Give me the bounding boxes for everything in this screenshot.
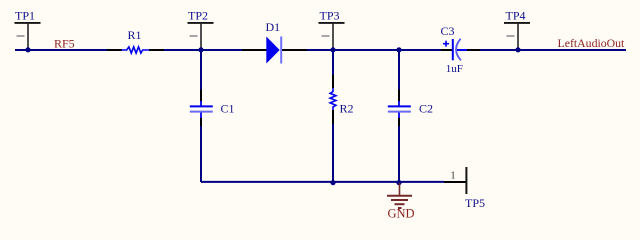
- svg-text:LeftAudioOut: LeftAudioOut: [558, 36, 626, 50]
- svg-text:D1: D1: [266, 20, 281, 34]
- svg-text:R1: R1: [128, 28, 142, 42]
- svg-text:1uF: 1uF: [446, 63, 463, 75]
- svg-text:TP5: TP5: [465, 196, 485, 210]
- svg-text:C1: C1: [221, 102, 235, 116]
- svg-text:R2: R2: [340, 102, 354, 116]
- svg-text:TP1: TP1: [15, 8, 35, 22]
- svg-text:GND: GND: [388, 207, 415, 221]
- svg-text:TP3: TP3: [320, 8, 340, 22]
- svg-text:C3: C3: [441, 24, 455, 38]
- svg-text:C2: C2: [419, 102, 433, 116]
- svg-text:TP2: TP2: [188, 8, 208, 22]
- svg-text:TP4: TP4: [506, 8, 526, 22]
- svg-text:RF5: RF5: [54, 37, 75, 51]
- svg-text:1: 1: [451, 171, 456, 182]
